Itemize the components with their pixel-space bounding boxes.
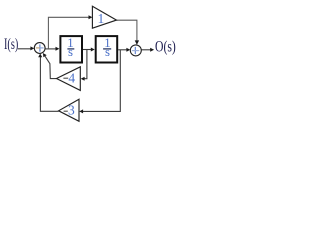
svg-text:s: s <box>68 45 73 59</box>
svg-text:3: 3 <box>68 102 75 117</box>
svg-text:I(s): I(s) <box>4 36 18 53</box>
svg-text:4: 4 <box>68 70 75 85</box>
svg-text:s: s <box>105 45 110 59</box>
svg-text:O(s): O(s) <box>155 39 176 56</box>
svg-text:1: 1 <box>98 11 105 26</box>
